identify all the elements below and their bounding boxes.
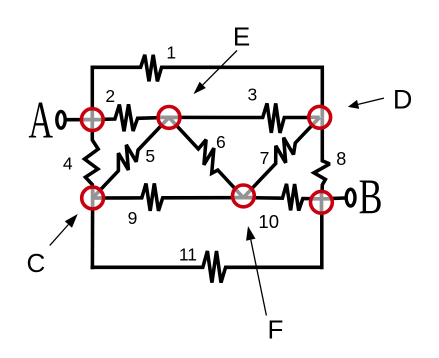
resistor R3 (169, 103, 322, 132)
wire terminal A to node (65, 118, 93, 122)
svg-text:E: E (233, 22, 250, 52)
svg-text:9: 9 (128, 208, 138, 228)
svg-text:7: 7 (260, 148, 270, 168)
svg-text:4: 4 (63, 154, 73, 174)
resistor R10 (243, 184, 321, 211)
resistor R1 (top side) (92, 55, 322, 82)
arrow from label E to node E (194, 51, 238, 95)
terminal A (57, 111, 65, 128)
terminal B (346, 189, 355, 206)
resistor R11 (bottom side) (91, 251, 323, 283)
resistor R6 (diagonal E to F) (169, 117, 243, 197)
resistor R4 (left side) (85, 120, 99, 198)
node E (154, 106, 184, 128)
svg-text:11: 11 (179, 244, 197, 264)
svg-text:1: 1 (166, 42, 176, 62)
arrow from label C to node C (50, 214, 78, 245)
wire node to terminal B (322, 196, 346, 200)
svg-text:2: 2 (105, 86, 115, 106)
svg-text:6: 6 (216, 132, 226, 152)
node C (81, 183, 107, 213)
wire left side lower (91, 198, 95, 269)
resistor R2 (92, 104, 169, 131)
resistor R5 (diagonal C to E) (93, 117, 169, 198)
svg-text:3: 3 (248, 85, 258, 105)
arrow from label D to node D (348, 98, 384, 109)
svg-text:A: A (28, 90, 53, 150)
svg-text:10: 10 (258, 211, 279, 232)
svg-text:5: 5 (145, 146, 155, 166)
wire left side upper (91, 66, 95, 120)
arrow from label F to node F (246, 226, 266, 316)
node D (305, 102, 331, 132)
resistor R7 (diagonal F to D) (243, 117, 319, 197)
wire right side lower (320, 199, 324, 269)
node junction at B (307, 184, 337, 214)
resistor R9 (93, 183, 244, 210)
node F (228, 185, 258, 207)
wire right side upper (321, 66, 325, 118)
resistor R8 (right side) (314, 117, 330, 199)
node junction at A (77, 105, 107, 135)
svg-text:F: F (267, 315, 283, 345)
svg-text:D: D (393, 84, 413, 114)
svg-text:8: 8 (336, 149, 346, 169)
svg-text:B: B (359, 169, 383, 224)
svg-text:C: C (27, 248, 46, 278)
